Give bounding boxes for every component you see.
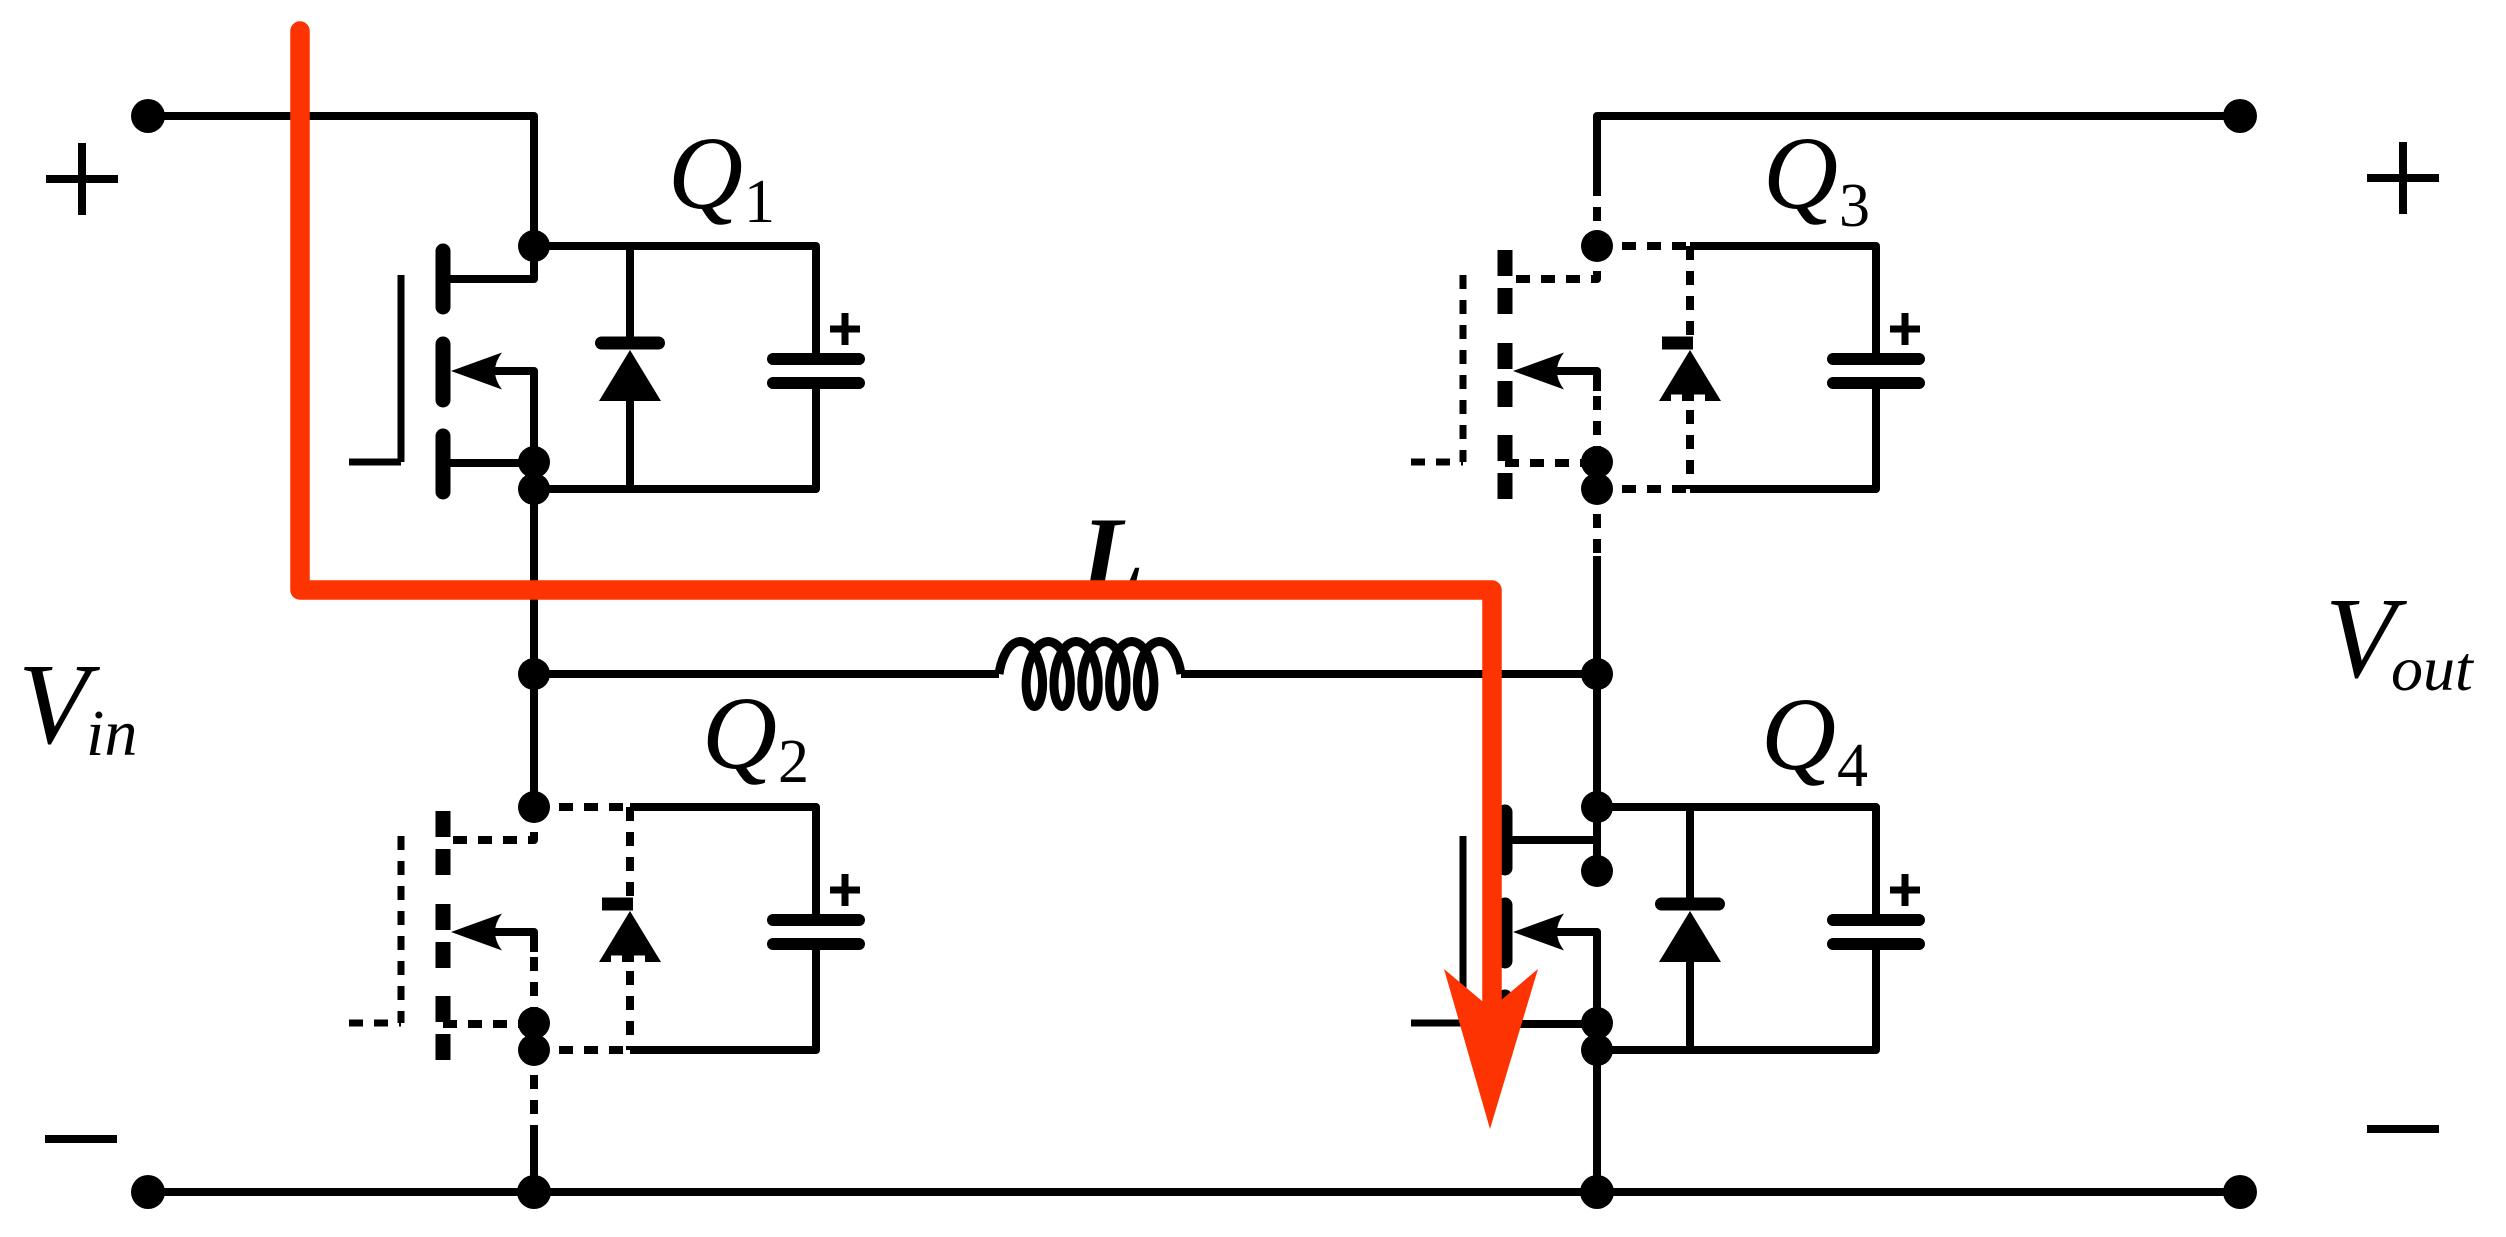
- wire Q3 body to source: [1593, 371, 1601, 462]
- diode D3 triangle base dash gaps: [1671, 395, 1705, 404]
- transistor Q4 channel bar bottom: [1498, 997, 1513, 1053]
- wire Q4 drain stub and lead: [1505, 807, 1597, 840]
- current path arrowhead: [1444, 969, 1538, 1129]
- diode D4 cathode bar: [1662, 898, 1719, 911]
- capacitor C2 top plate: [773, 914, 859, 926]
- capacitor C3 plus sign: [1890, 313, 1920, 345]
- transistor Q2 body arrow head: [451, 914, 502, 951]
- transistor Q2 gate bar: [398, 836, 405, 1023]
- svg-text:out: out: [2391, 633, 2475, 704]
- node Q1 drain junction: [518, 230, 550, 262]
- node A (left switch node): [518, 658, 550, 690]
- transistor Q3 gate lead: [1411, 459, 1463, 466]
- output minus sign: [2367, 1125, 2439, 1133]
- svg-text:Q: Q: [668, 116, 743, 231]
- capacitor C4 bottom plate: [1833, 938, 1919, 950]
- node Q2 source lead junction: [518, 1007, 550, 1039]
- capacitor C3 top plate: [1833, 353, 1919, 365]
- wire node A to inductor: [534, 670, 999, 678]
- transistor Q4 channel bar top: [1498, 812, 1513, 868]
- diode D3 anode wire: [1686, 410, 1694, 489]
- transistor Q4 body arrow wire: [1548, 932, 1597, 952]
- wire node A to Q2 drain: [530, 674, 538, 807]
- wire Q1 source branch to capacitor: [534, 469, 816, 489]
- node Q1 source branch junction: [518, 473, 550, 505]
- wire bottom rail: [148, 1188, 2240, 1196]
- capacitor C3 bottom plate: [1833, 377, 1919, 389]
- svg-text:Q: Q: [1761, 677, 1836, 792]
- svg-text:in: in: [86, 697, 137, 770]
- capacitor C1 plus sign: [830, 313, 860, 345]
- node Q2 drain junction: [518, 791, 550, 823]
- transistor Q1 gate bar: [398, 275, 405, 462]
- wire Q3 drain from top rail: [1593, 116, 1601, 182]
- wire Q4 drain branch to capacitor: [1597, 807, 1876, 827]
- capacitor C1 top wire: [812, 246, 820, 353]
- capacitor C1 bottom wire: [812, 389, 820, 489]
- svg-text:3: 3: [1839, 172, 1870, 240]
- diode D4 triangle: [1659, 911, 1721, 962]
- transistor Q1 body arrow head: [451, 353, 502, 390]
- node input - terminal: [131, 1175, 165, 1209]
- wire Q4 source to bottom rail: [1593, 1050, 1601, 1192]
- diode D3 triangle: [1659, 350, 1721, 401]
- node B (right switch node): [1581, 658, 1613, 690]
- wire Q2 body to source: [530, 932, 538, 1023]
- wire output top rail: [1597, 116, 2240, 132]
- capacitor C1 bottom plate: [773, 377, 859, 389]
- inductor L coil: [999, 642, 1181, 707]
- transistor Q2 channel bar bottom: [436, 996, 451, 1060]
- node input + terminal: [131, 99, 165, 133]
- node Q4 source lead junction: [1581, 1007, 1613, 1039]
- wire Q2 drain branch to capacitor: [630, 807, 816, 827]
- wire Q4 body to source: [1593, 932, 1601, 1023]
- wire Q1 drain stub and lead: [443, 246, 534, 279]
- transistor Q3 body arrow wire: [1548, 371, 1597, 391]
- transistor Q2 gate lead: [349, 1020, 401, 1027]
- wire Q3 source branch (dashed to diode): [1597, 485, 1690, 493]
- wire Q3 drain dashed: [1593, 182, 1601, 246]
- capacitor C2 plus sign: [830, 874, 860, 906]
- node Q3 drain junction: [1581, 230, 1613, 262]
- wire Q2 source branch (dashed to diode): [534, 1046, 630, 1054]
- transistor Q2 channel bar middle: [436, 904, 451, 968]
- wire Q1 source to switch node A: [530, 489, 538, 674]
- svg-text:1: 1: [744, 168, 775, 236]
- capacitor C2 bottom plate: [773, 938, 859, 950]
- node Q2 source branch junction: [518, 1034, 550, 1066]
- wire inductor to node B: [1181, 670, 1597, 678]
- wire Q1 drain branch to capacitor: [534, 246, 816, 266]
- node Q2 bottom rail junction: [517, 1175, 551, 1209]
- node Q4 drain junction: [1581, 791, 1613, 823]
- capacitor C4 top plate: [1833, 914, 1919, 926]
- diode D1 cathode wire: [626, 246, 634, 340]
- node Q4 source branch junction: [1581, 1034, 1613, 1066]
- wire Q3 source dashed down: [1593, 489, 1601, 556]
- transistor Q3 gate bar: [1460, 275, 1467, 462]
- input minus sign: [45, 1135, 117, 1143]
- diode D2 triangle base dash gaps: [611, 956, 645, 965]
- node Q3 source lead junction: [1581, 446, 1613, 478]
- wire Q2 drain branch (dashed to diode): [534, 803, 630, 811]
- wire Q3 drain branch to capacitor: [1690, 246, 1876, 266]
- svg-text:Q: Q: [702, 676, 777, 791]
- diode D2 cathode wire: [626, 807, 634, 901]
- capacitor C3 bottom wire: [1872, 389, 1880, 489]
- diode D3 cathode wire: [1686, 246, 1694, 340]
- transistor Q4 gate lead: [1411, 1020, 1463, 1027]
- transistor Q1 channel bar top: [436, 251, 451, 307]
- transistor Q3 channel bar middle: [1498, 343, 1513, 407]
- node Q4 bottom rail junction: [1580, 1175, 1614, 1209]
- capacitor C2 bottom wire: [812, 950, 820, 1050]
- transistor Q4 channel bar middle: [1498, 905, 1513, 961]
- wire Q2 source to bottom rail: [530, 1125, 538, 1192]
- wire Q2 source branch to capacitor: [630, 1030, 816, 1050]
- diode D2 triangle: [599, 911, 661, 962]
- capacitor C3 top wire: [1872, 246, 1880, 353]
- wire Q4 source branch to capacitor: [1597, 1030, 1876, 1050]
- node Q3 source branch junction: [1581, 473, 1613, 505]
- transistor Q1 channel bar middle: [436, 344, 451, 400]
- wire Q2 drain stub and lead: [443, 807, 534, 840]
- transistor Q3 body arrow head: [1513, 353, 1564, 390]
- wire Q4 source lead: [1505, 1020, 1597, 1028]
- capacitor C2 top wire: [812, 807, 820, 914]
- svg-text:4: 4: [1837, 732, 1868, 800]
- wire Q1 source lead: [443, 459, 534, 467]
- transistor Q4 gate bar: [1460, 836, 1467, 1023]
- transistor Q1 gate lead: [349, 459, 401, 466]
- diode D3 cathode bar: [1662, 337, 1693, 350]
- node output + terminal: [2223, 99, 2257, 133]
- wire Q2 source dashed to ground: [530, 1050, 538, 1125]
- transistor Q3 channel bar bottom: [1498, 435, 1513, 499]
- diode D1 triangle: [599, 350, 661, 401]
- transistor Q2 channel bar top: [436, 811, 451, 875]
- capacitor C1 top plate: [773, 353, 859, 365]
- wire Q2 source lead: [443, 1020, 534, 1028]
- diode D2 cathode bar: [602, 898, 633, 911]
- diode D1 cathode bar: [602, 337, 659, 350]
- wire Q3 source lead: [1505, 459, 1597, 467]
- output plus sign: [2367, 142, 2439, 214]
- diode D4 anode wire: [1686, 960, 1694, 1050]
- wire Q3 source branch to capacitor: [1690, 469, 1876, 489]
- diode D4 cathode wire: [1686, 807, 1694, 901]
- node output - terminal: [2223, 1175, 2257, 1209]
- capacitor C4 plus sign: [1890, 874, 1920, 906]
- transistor Q2 body arrow wire: [486, 932, 534, 952]
- wire Q1 body to source: [530, 371, 538, 462]
- capacitor C4 bottom wire: [1872, 950, 1880, 1050]
- wire Q3 drain stub and lead: [1505, 246, 1597, 279]
- transistor Q1 channel bar bottom: [436, 436, 451, 492]
- wire input top rail: [148, 116, 534, 246]
- node Q1 source lead junction: [518, 446, 550, 478]
- transistor Q3 channel bar top: [1498, 250, 1513, 314]
- transistor Q4 body arrow head: [1513, 914, 1564, 951]
- svg-text:Q: Q: [1763, 116, 1838, 231]
- capacitor C4 top wire: [1872, 807, 1880, 914]
- wire Q3 source to node B: [1593, 556, 1601, 674]
- current path highlight (red): [300, 31, 1492, 1000]
- diode D2 anode wire: [626, 971, 634, 1050]
- wire Q4 drain stub below lead: [1593, 840, 1601, 856]
- input plus sign: [46, 143, 118, 215]
- svg-text:2: 2: [778, 728, 809, 796]
- node Q4 drain stub dot: [1581, 855, 1613, 887]
- wire node B to Q4 drain: [1593, 674, 1601, 807]
- wire Q3 drain branch (dashed to diode): [1597, 242, 1690, 250]
- diode D1 anode wire: [626, 399, 634, 489]
- transistor Q1 body arrow wire: [486, 371, 534, 391]
